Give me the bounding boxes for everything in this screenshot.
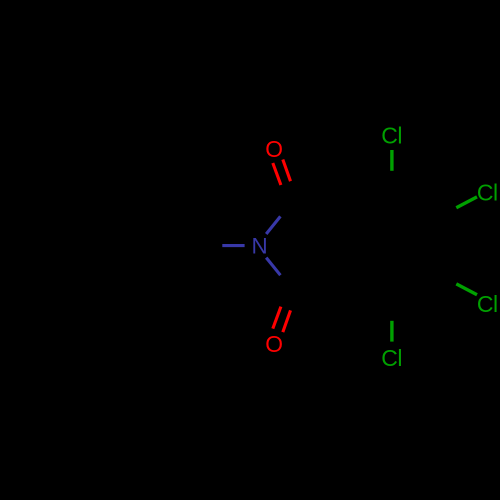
- svg-text:Cl: Cl: [477, 179, 498, 205]
- svg-text:N: N: [252, 234, 268, 259]
- svg-text:Cl: Cl: [381, 345, 402, 371]
- svg-text:Cl: Cl: [381, 123, 402, 149]
- svg-text:O: O: [265, 331, 283, 357]
- svg-text:Cl: Cl: [477, 291, 498, 317]
- svg-text:O: O: [265, 136, 283, 162]
